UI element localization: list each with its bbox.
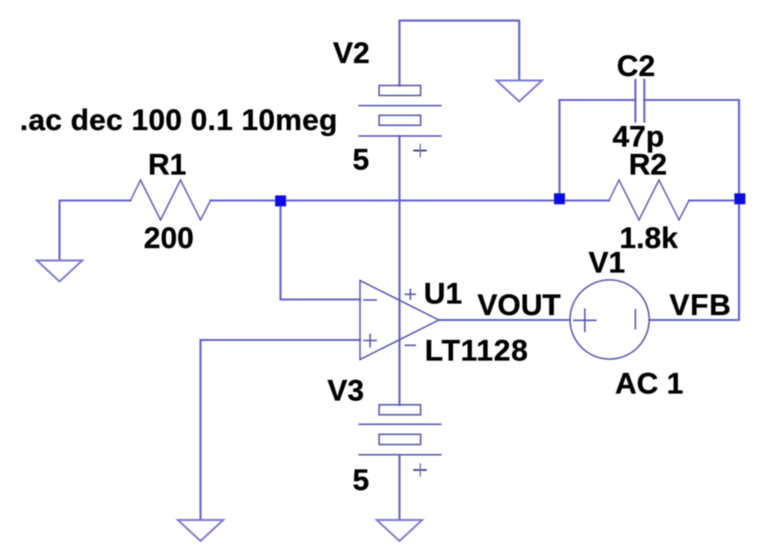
svg-text:LT1128: LT1128 — [425, 335, 529, 368]
svg-text:R2: R2 — [629, 148, 667, 181]
svg-text:200: 200 — [144, 222, 194, 255]
resistor R1 — [131, 180, 211, 220]
ground (V2 top) — [497, 81, 543, 102]
wire V3 bottom to ground — [398, 455, 400, 520]
op-amp V+ mark — [405, 289, 415, 299]
V1 minus mark (rotated) — [634, 310, 636, 329]
svg-text:U1: U1 — [424, 278, 462, 311]
svg-text:R1: R1 — [148, 149, 186, 182]
wire non-inverting input branch — [201, 340, 361, 520]
junction node (R2 left / feedback upper) — [554, 193, 565, 204]
op-amp inverting mark — [364, 299, 376, 301]
wire main horizontal left segment — [60, 201, 131, 261]
voltage source V1 — [570, 280, 649, 359]
svg-text:VFB: VFB — [669, 289, 731, 322]
wire op-amp output to V1 — [439, 319, 570, 321]
battery V3 plus mark — [414, 464, 426, 476]
V1 plus mark — [574, 309, 596, 331]
op-amp V- mark — [405, 344, 415, 346]
capacitor C2 — [635, 80, 644, 122]
svg-text:V2: V2 — [333, 37, 370, 70]
wire R2 right lead — [689, 199, 739, 201]
op-amp non-inverting mark — [364, 334, 376, 346]
ground (non-inverting input) — [178, 520, 224, 541]
svg-text:5: 5 — [353, 144, 370, 177]
svg-text:VOUT: VOUT — [477, 289, 560, 322]
wire V1 right up to feedback node — [644, 100, 739, 320]
junction node (R1 / inverting input) — [275, 195, 286, 206]
wire V2 bottom through op-amp to V3 — [398, 136, 400, 405]
svg-text:V3: V3 — [327, 375, 364, 408]
svg-text:.ac dec 100 0.1 10meg: .ac dec 100 0.1 10meg — [20, 104, 338, 137]
svg-text:AC 1: AC 1 — [615, 368, 683, 401]
wire main horizontal middle — [211, 199, 610, 201]
wire C2 left to upper node — [560, 100, 636, 201]
battery V2 — [359, 86, 441, 137]
ground (R1 left) — [37, 261, 83, 282]
resistor R2 — [609, 180, 689, 220]
op-amp U1 — [360, 281, 439, 360]
battery V2 plus mark — [414, 145, 426, 157]
svg-text:1.8k: 1.8k — [620, 222, 679, 255]
wire V2 top to ground — [400, 21, 520, 86]
junction node (R2 right / C2 / VFB) — [734, 193, 745, 204]
svg-text:5: 5 — [353, 464, 370, 497]
wire inverting input branch — [281, 203, 361, 300]
svg-text:C2: C2 — [617, 50, 655, 83]
battery V3 — [359, 405, 441, 455]
svg-text:V1: V1 — [589, 247, 626, 280]
ground (V3 bottom) — [377, 520, 423, 541]
